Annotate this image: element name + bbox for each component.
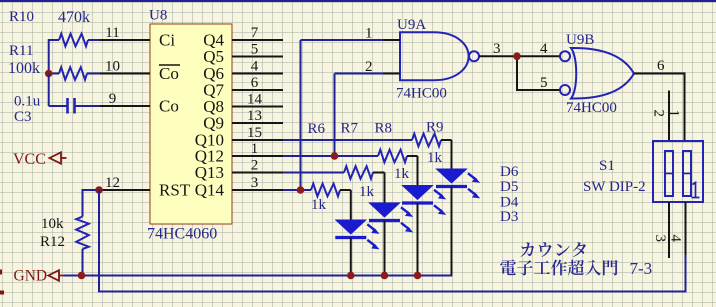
svg-text:R11: R11: [9, 43, 33, 59]
svg-text:5: 5: [540, 75, 548, 91]
svg-text:1k: 1k: [311, 197, 327, 213]
wire: U9B output to S1 pin 1: [634, 58, 685, 140]
junction: Q14 line / U9A input 1: [297, 186, 305, 194]
junction: U9A output node: [513, 53, 521, 61]
wire: top sheet border line: [0, 0, 716, 2]
svg-text:1k: 1k: [394, 166, 410, 182]
svg-text:11: 11: [105, 25, 119, 41]
power port VCC: [13, 151, 67, 168]
svg-text:3: 3: [493, 41, 501, 57]
svg-text:D3: D3: [500, 209, 518, 225]
svg-text:C3: C3: [14, 109, 32, 125]
svg-text:7-3: 7-3: [630, 259, 653, 278]
svg-text:Q14: Q14: [195, 181, 225, 200]
svg-text:6: 6: [251, 75, 259, 91]
U8 pin 5 (Q5): [203, 42, 283, 67]
svg-text:1: 1: [666, 110, 682, 118]
resistor R9 1k: [412, 120, 452, 167]
wire: Q12 to R8 and U9A input drop: [283, 74, 383, 157]
wire: Q13 to R7: [283, 172, 344, 174]
svg-text:R8: R8: [375, 121, 393, 137]
resistor R8 1k: [375, 121, 418, 183]
U8 pin 6 (Q7): [203, 75, 283, 100]
svg-text:Co: Co: [159, 97, 179, 116]
svg-text:1: 1: [365, 26, 373, 42]
sheet corner mark: [0, 270, 4, 295]
U8 pin 2 (Q13): [195, 158, 283, 183]
S1 pin 2: [651, 91, 670, 141]
resistor R12 10k: [40, 216, 89, 276]
wire: reset bus down and along bottom: [99, 190, 686, 292]
svg-text:6: 6: [657, 58, 665, 74]
switch S1 SW DIP-2 body: [583, 141, 703, 202]
svg-text:U8: U8: [149, 8, 167, 24]
resistor R6 1k: [308, 121, 351, 213]
U8 pin 12 (RST): [100, 175, 191, 200]
NAND gate U9A 74HC00: [365, 17, 479, 102]
svg-text:7: 7: [251, 25, 259, 41]
text: title カウンタ: [521, 242, 586, 257]
svg-text:2: 2: [651, 110, 667, 118]
U8 pin 14 (Q8): [203, 92, 283, 117]
svg-text:U9B: U9B: [566, 32, 594, 48]
svg-text:D5: D5: [500, 179, 518, 195]
resistor R10 470k: [9, 9, 100, 46]
svg-text:10k: 10k: [41, 216, 64, 232]
wire: R10 left lead down to R11 node: [48, 39, 50, 74]
U8 pin 3 (Q14): [195, 175, 283, 200]
svg-text:S1: S1: [599, 158, 615, 174]
U8 pin 13 (Q9): [203, 108, 283, 133]
svg-text:1k: 1k: [359, 184, 375, 200]
U8 pin 7 (Q4): [203, 25, 283, 50]
svg-text:Q13: Q13: [195, 163, 224, 182]
U8 pin 1 (Q12): [195, 141, 283, 166]
svg-text:470k: 470k: [58, 9, 90, 26]
svg-text:14: 14: [247, 92, 263, 108]
svg-text:74HC00: 74HC00: [396, 86, 447, 102]
svg-text:10: 10: [105, 59, 120, 75]
junction: D4 cathode on ground bus: [381, 272, 389, 280]
U8 pin 4 (Q6): [203, 59, 283, 84]
svg-text:D4: D4: [500, 195, 519, 211]
svg-text:3: 3: [251, 175, 259, 191]
svg-text:13: 13: [247, 108, 262, 124]
wire: node down to C3: [49, 74, 67, 107]
svg-text:D6: D6: [500, 164, 519, 180]
LED D4: [369, 195, 519, 276]
S1 pin 4: [668, 202, 686, 255]
wire: ground bus along LED cathodes: [64, 188, 452, 276]
svg-text:15: 15: [247, 125, 262, 141]
junction: D5 cathode on ground bus: [414, 272, 422, 280]
svg-text:GND: GND: [14, 268, 48, 285]
svg-text:R9: R9: [426, 120, 444, 136]
U8 pin 15 (Q10): [195, 125, 283, 150]
junction: RST / reset bus node: [95, 186, 103, 194]
svg-text:1: 1: [251, 141, 259, 157]
svg-text:RST: RST: [159, 181, 191, 200]
svg-text:0.1u: 0.1u: [14, 94, 41, 110]
svg-text:R10: R10: [9, 9, 34, 25]
wire: Q10 to R9: [283, 139, 412, 141]
junction: R10/R11/C3 node: [45, 70, 53, 78]
svg-text:74HC4060: 74HC4060: [147, 226, 217, 243]
svg-text:Ci: Ci: [159, 31, 175, 50]
ground port GND: [14, 268, 65, 285]
S1 pin 1: [666, 110, 682, 118]
svg-text:2: 2: [251, 158, 259, 174]
wire: R8 to D5 anode: [417, 156, 419, 186]
junction: R12 bottom to ground bus: [78, 272, 86, 280]
svg-text:1k: 1k: [427, 150, 443, 166]
S1 pin 3: [652, 202, 669, 258]
svg-text:5: 5: [251, 42, 259, 58]
LED D3: [335, 209, 518, 276]
wire: Q14 to R6 and U9A input drop: [283, 40, 383, 190]
svg-text:Co: Co: [159, 64, 179, 83]
svg-text:VCC: VCC: [13, 151, 46, 168]
junction: D3 cathode on ground bus: [347, 272, 355, 280]
svg-text:R7: R7: [341, 121, 359, 137]
svg-text:R6: R6: [308, 121, 326, 137]
resistor R7 1k: [341, 121, 385, 201]
U8 pin 11 (Ci): [100, 25, 175, 50]
svg-text:R12: R12: [40, 234, 65, 250]
svg-text:100k: 100k: [8, 60, 40, 77]
svg-text:9: 9: [109, 91, 117, 107]
wire: R7 to D4 anode: [384, 173, 386, 204]
wire: R6 to D3 anode: [350, 190, 352, 220]
NAND gate U9B 74HC00 (negative-OR): [560, 32, 634, 116]
svg-text:3: 3: [652, 235, 668, 243]
wire: U9A output to U9B inputs: [479, 41, 560, 91]
U8 pin 10 (Co&#773;): [100, 59, 180, 84]
LED D5: [402, 179, 518, 276]
svg-text:4: 4: [668, 235, 684, 243]
svg-text:12: 12: [105, 175, 120, 191]
svg-text:74HC00: 74HC00: [566, 100, 617, 116]
text: title 電子工作超入門 7-3: [500, 259, 652, 278]
svg-text:2: 2: [365, 59, 373, 75]
svg-text:4: 4: [251, 59, 259, 75]
U8 pin 9 (Co): [100, 91, 179, 116]
wire: RST to R12 top: [83, 189, 101, 217]
svg-text:4: 4: [540, 41, 548, 57]
svg-text:SW DIP-2: SW DIP-2: [583, 179, 646, 195]
IC U8 74HC4060 body: [147, 8, 232, 243]
resistor R11 100k: [8, 43, 100, 80]
junction: Q12 line / U9A input 2: [331, 152, 339, 160]
capacitor C3 0.1u: [14, 94, 100, 126]
LED D6: [436, 164, 519, 276]
svg-text:U9A: U9A: [397, 17, 426, 33]
wire: R9 to D6 anode: [451, 140, 453, 169]
